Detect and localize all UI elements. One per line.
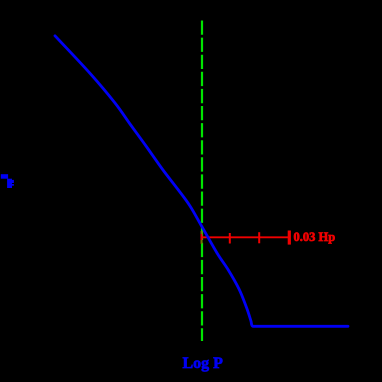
svg-text:Log P: Log P xyxy=(183,355,224,372)
red horizontal measure line xyxy=(202,236,289,238)
y-axis label fragment (cut off at left edge) xyxy=(1,174,14,188)
red tick left xyxy=(201,231,203,244)
red tick right (tall) xyxy=(288,231,291,245)
red tick 2 xyxy=(229,233,231,244)
green/red overlap blend on left tick xyxy=(201,231,203,234)
red tick 3 xyxy=(258,232,260,243)
blue curve xyxy=(55,36,348,327)
green dashed vertical line xyxy=(201,21,203,342)
svg-text:0.03 Hp: 0.03 Hp xyxy=(294,230,336,244)
